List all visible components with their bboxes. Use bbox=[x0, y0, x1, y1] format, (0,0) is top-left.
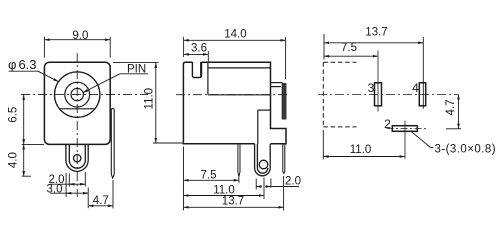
svg-text:3-(3.0×0.8): 3-(3.0×0.8) bbox=[435, 144, 497, 156]
svg-text:3.0: 3.0 bbox=[47, 183, 63, 195]
svg-text:7.5: 7.5 bbox=[201, 170, 217, 182]
svg-text:7.5: 7.5 bbox=[341, 42, 357, 54]
svg-text:13.7: 13.7 bbox=[365, 27, 387, 39]
svg-text:9.0: 9.0 bbox=[72, 30, 88, 42]
svg-text:14.0: 14.0 bbox=[224, 28, 246, 40]
svg-text:4.7: 4.7 bbox=[445, 100, 457, 116]
svg-text:4.7: 4.7 bbox=[93, 195, 109, 207]
svg-text:4: 4 bbox=[412, 81, 419, 95]
svg-text:PIN: PIN bbox=[127, 63, 146, 75]
svg-text:3: 3 bbox=[368, 81, 375, 95]
svg-text:13.7: 13.7 bbox=[222, 196, 244, 208]
svg-text:11.0: 11.0 bbox=[213, 184, 235, 196]
svg-text:11.0: 11.0 bbox=[143, 88, 155, 110]
svg-text:φ6.3: φ6.3 bbox=[8, 57, 37, 72]
svg-text:11.0: 11.0 bbox=[350, 144, 372, 156]
svg-text:6.5: 6.5 bbox=[8, 107, 20, 123]
svg-text:2: 2 bbox=[384, 117, 391, 131]
svg-text:4.0: 4.0 bbox=[8, 152, 20, 168]
svg-text:3.6: 3.6 bbox=[191, 43, 207, 55]
svg-text:2.0: 2.0 bbox=[285, 176, 301, 188]
